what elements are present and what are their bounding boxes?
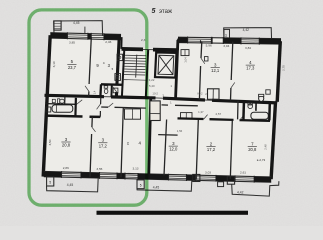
svg-text:5: 5 — [152, 8, 156, 15]
mid wall left segment — [45, 95, 105, 96]
balcony bottom-right box — [227, 176, 234, 184]
svg-text:5: 5 — [140, 183, 142, 187]
box 6 bottom — [193, 174, 200, 181]
window mullion tick — [200, 40, 202, 43]
staircase treads — [124, 55, 146, 75]
svg-text:20,8: 20,8 — [248, 147, 257, 152]
wc divider lower-left — [64, 97, 66, 104]
mid wall segment 4 — [212, 100, 277, 103]
bottom outer wall with windows — [44, 172, 271, 183]
svg-text:2,61: 2,61 — [240, 171, 246, 175]
hall door lower-left — [97, 104, 101, 109]
left outer wall — [43, 35, 50, 176]
closets room12 — [181, 113, 193, 119]
porch left jog wall — [120, 37, 122, 49]
party wall upper — [117, 37, 119, 85]
svg-text:10-2: 10-2 — [152, 91, 158, 95]
mid wall segment 2 — [111, 95, 150, 99]
wall y107 rooms top — [101, 106, 108, 108]
svg-text:15: 15 — [126, 142, 130, 146]
door room5 — [85, 86, 89, 92]
small box above mid wall right — [266, 90, 270, 94]
wall rooms 2-7 — [230, 121, 232, 179]
door room 17.2 top — [108, 103, 113, 107]
svg-text:3,22: 3,22 — [149, 78, 155, 82]
svg-text:6: 6 — [196, 177, 198, 181]
svg-text:17,2: 17,2 — [207, 147, 216, 152]
mid wall door gap left apt — [104, 96, 111, 98]
toilet lower-left — [58, 99, 60, 104]
washbasin lower-left — [46, 107, 51, 112]
staircase porch wall with entrance door — [122, 47, 144, 51]
balcony bottom-mid outline — [137, 181, 192, 192]
balcony bottom-mid box — [137, 180, 144, 189]
closet upper-right hall — [181, 50, 189, 56]
bath block lower-left divider — [46, 103, 76, 106]
storage box hall — [150, 101, 160, 121]
svg-text:5,40: 5,40 — [149, 84, 155, 88]
balcony top-right outline — [224, 28, 272, 41]
garbage chute box — [115, 74, 121, 81]
svg-text:4,45: 4,45 — [73, 21, 80, 25]
mid wall segment 3 — [163, 98, 205, 100]
hall-bath wall right apt — [237, 101, 239, 120]
corridor wall right apartment — [178, 117, 204, 120]
svg-text:17,2: 17,2 — [99, 143, 108, 148]
wall rooms 17.2-4 — [121, 108, 123, 178]
svg-text:4,45: 4,45 — [67, 183, 74, 187]
svg-text:20,8: 20,8 — [62, 143, 71, 148]
tub right — [251, 112, 268, 119]
bath block upper-left walls — [101, 83, 123, 86]
svg-text:4,42: 4,42 — [237, 190, 244, 194]
svg-text:3,13: 3,13 — [132, 167, 138, 171]
wall room5-kitchen upper — [89, 37, 91, 84]
svg-text:2,3: 2,3 — [141, 38, 146, 42]
porch right jog wall — [177, 39, 179, 51]
balcony bottom-right outline — [232, 181, 279, 196]
svg-text:Ю-2: Ю-2 — [197, 91, 203, 95]
elevator shaft outer wall — [155, 52, 177, 77]
svg-text:4,42: 4,42 — [243, 28, 250, 32]
svg-text:4,57: 4,57 — [215, 112, 221, 116]
svg-text:в-2,73: в-2,73 — [257, 158, 266, 162]
mid wall landing door gap — [156, 97, 164, 99]
balcony top-right small box — [224, 29, 230, 38]
svg-text:3,85: 3,85 — [69, 41, 75, 45]
svg-text:1,56: 1,56 — [177, 129, 183, 133]
balcony top-left corner cabinet box — [54, 21, 61, 30]
balcony top-left outline — [54, 21, 103, 36]
corridor wall y105 right — [162, 104, 169, 106]
right bath divider — [255, 103, 257, 111]
sink upper-left — [113, 88, 118, 93]
svg-text:1,4: 1,4 — [93, 90, 97, 94]
svg-text:17,3: 17,3 — [246, 66, 255, 71]
door room4 — [231, 82, 235, 88]
toilet right — [248, 104, 253, 109]
svg-text:3,50: 3,50 — [48, 139, 52, 145]
right bath right wall — [268, 103, 271, 121]
svg-text:2,48: 2,48 — [263, 144, 267, 150]
svg-text:2,46: 2,46 — [105, 40, 111, 44]
shaft box left of stair — [117, 54, 123, 60]
paper building area — [43, 33, 281, 181]
top outer wall right half with windows — [178, 37, 281, 44]
staircase landing edge — [123, 79, 146, 82]
svg-text:5,96: 5,96 — [206, 44, 212, 48]
svg-text:3,10: 3,10 — [52, 61, 56, 67]
staircase right wall — [146, 50, 148, 98]
svg-text:12,0: 12,0 — [169, 147, 178, 152]
svg-text:2,86: 2,86 — [63, 166, 69, 170]
svg-text:3,55: 3,55 — [96, 167, 102, 171]
bath block lower-left right wall — [74, 98, 77, 117]
bath door lower-left — [76, 100, 82, 105]
svg-text:5: 5 — [49, 181, 51, 185]
hall wall lower-left — [100, 97, 102, 104]
wall rooms 20.8-17.2 — [91, 117, 93, 127]
door party wall — [113, 87, 117, 92]
staircase flight divider — [136, 55, 137, 78]
closet row room4 — [125, 109, 141, 119]
door room2 — [204, 115, 208, 120]
green highlight rounded rectangle — [29, 10, 147, 205]
svg-text:1,37: 1,37 — [198, 110, 204, 114]
balcony bottom-left outline — [47, 178, 99, 192]
mid wall door gap right apt — [205, 99, 212, 101]
mark box wc lower-left — [52, 99, 55, 102]
elevator cross — [158, 55, 174, 74]
right wall jog — [275, 101, 277, 103]
fixture oval on mid wall right — [259, 95, 264, 101]
svg-text:12,1: 12,1 — [211, 68, 220, 73]
svg-text:1,04: 1,04 — [184, 57, 188, 63]
bath block lower-left bottom wall — [46, 114, 83, 117]
party wall lower — [149, 99, 151, 179]
door room3 — [201, 58, 205, 64]
right outer wall upper — [277, 41, 280, 102]
right outer wall lower — [271, 102, 275, 179]
top outer wall left half with windows — [50, 33, 121, 40]
svg-text:этаж: этаж — [159, 9, 172, 15]
balcony bottom-left box — [47, 177, 54, 186]
staircase left wall — [122, 49, 124, 97]
toilet upper-left — [104, 86, 108, 89]
svg-text:23,7: 23,7 — [68, 65, 77, 70]
right bath left wall — [242, 103, 245, 120]
room12 closet wall — [158, 134, 177, 137]
wall hall-room3 — [200, 42, 203, 58]
svg-text:4,45: 4,45 — [153, 185, 160, 189]
svg-text:3,04: 3,04 — [223, 44, 229, 48]
tub lower-left — [52, 105, 73, 112]
svg-text:2,70: 2,70 — [281, 65, 285, 71]
wall right of elevator — [176, 40, 178, 100]
mid wall segment 2b — [150, 96, 156, 99]
wc boxes upper-right — [208, 89, 220, 100]
elevator cab inner — [158, 55, 174, 74]
wall room3-room4 — [231, 42, 233, 80]
wall rooms12-2 — [196, 120, 198, 179]
corridor vertical wall right apt — [164, 120, 167, 176]
scan grain texture — [0, 0, 1, 1]
door room 17.2 — [92, 127, 96, 132]
shelf mark room3 — [204, 57, 208, 61]
door room7 — [240, 116, 244, 121]
svg-text:3,84: 3,84 — [245, 46, 251, 50]
svg-text:3,03: 3,03 — [205, 170, 211, 174]
black scale bar — [97, 211, 249, 215]
balcony top-left divider tick — [84, 27, 86, 34]
elevator machine links — [156, 50, 158, 52]
small box bottom plain — [218, 182, 224, 187]
